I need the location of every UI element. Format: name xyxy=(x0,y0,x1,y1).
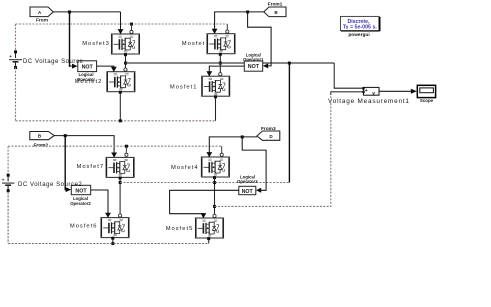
wire DC source + up to bus xyxy=(15,24,17,52)
load rail bottom bridge to Voltage Measurement - input xyxy=(215,95,331,206)
wire Mosfet5 source down to bottom bus xyxy=(208,239,210,243)
wire bus down to Mosfet4 drain circle xyxy=(221,146,223,153)
op-amp NOT U2 Logical Operator1 xyxy=(243,53,264,72)
transistor Mosfet5 xyxy=(166,213,224,240)
arrowhead into Scope xyxy=(411,89,417,94)
svg-text:Mosfet3: Mosfet3 xyxy=(82,41,110,47)
DC voltage source V2 xyxy=(2,174,15,193)
goto tag From3 (D) xyxy=(257,126,280,140)
arrowhead into Logical Operator2 input xyxy=(66,187,72,192)
transistor Mosfet (top right) xyxy=(182,29,235,56)
svg-text:Ts = 5e-005 s.: Ts = 5e-005 s. xyxy=(343,25,378,31)
svg-text:NOT: NOT xyxy=(75,189,87,195)
node junction to series rail xyxy=(288,62,291,65)
wire Mosfet3 source down to mid bus xyxy=(125,56,127,64)
op-amp NOT U4 Logical Operator3 xyxy=(237,174,258,195)
svg-text:+: + xyxy=(2,177,5,182)
wire Mosfet2 source down to bottom bus xyxy=(119,93,121,121)
voltmeter U5 Voltage Measurement1 xyxy=(328,87,410,105)
svg-text:Mosfet: Mosfet xyxy=(182,41,205,47)
top positive bus (gray) xyxy=(16,23,228,25)
wire From tag to Mosfet3 gate (horizontal) xyxy=(53,11,120,13)
svg-text:NOT: NOT xyxy=(242,189,254,195)
wire down to Mosfet3 gate xyxy=(120,12,122,30)
wire junction down to Logical Operator2 input xyxy=(65,136,66,190)
arrowhead into Logical Operator3 right input xyxy=(256,188,261,193)
wire Voltage Measurement output to Scope xyxy=(379,90,411,92)
transistor Mosfet7 xyxy=(76,152,134,179)
node junction bottom bus (bottom bridge) xyxy=(111,242,114,245)
wire From3 to Mosfet4 gate xyxy=(209,137,257,153)
wire Mosfet source down through mid bus to Mosfet1 drain xyxy=(219,55,221,73)
op-amp NOT U1 Logical Operator xyxy=(77,61,97,82)
node junction on From2 wire xyxy=(64,134,67,137)
wire Mosfet6 source down to bottom bus xyxy=(112,239,114,244)
wire NOT output to Mosfet2 gate xyxy=(97,66,114,67)
scope block Scope xyxy=(417,85,435,103)
svg-text:+: + xyxy=(9,54,12,59)
svg-text:Mosfet7: Mosfet7 xyxy=(76,164,104,170)
node junction bottom bus xyxy=(119,119,122,122)
goto tag From1 (B) xyxy=(264,2,286,17)
svg-text:NOT: NOT xyxy=(82,64,94,70)
op-amp NOT U3 Logical Operator2 xyxy=(70,185,91,206)
wire bus down to Mosfet3 drain circle xyxy=(131,24,133,30)
svg-text:+: + xyxy=(365,88,368,94)
wire Mosfet1 source down to bottom bus xyxy=(215,98,217,121)
node junction mid bus right (bottom bridge) xyxy=(213,181,216,184)
DC voltage source V1 xyxy=(9,50,22,69)
svg-text:Mosfet2: Mosfet2 xyxy=(75,79,103,85)
wire bus down to Mosfet drain circle xyxy=(226,24,228,30)
node junction mid bus right xyxy=(219,62,222,65)
goto tag From2 (A) xyxy=(30,132,54,149)
node junction bus to Mosfet3 drain xyxy=(130,23,133,26)
svg-text:From3: From3 xyxy=(261,126,276,132)
wire Mosfet7 source down through mid bus to Mosfet6 drain xyxy=(119,179,121,214)
node junction mid bus left (bottom bridge) xyxy=(119,181,122,184)
mid bus node B (bottom bridge output) xyxy=(120,182,289,184)
node junction mid bus left xyxy=(124,62,127,65)
svg-text:Mosfet4: Mosfet4 xyxy=(171,165,199,171)
svg-text:DC Voltage Source: DC Voltage Source xyxy=(23,59,83,65)
wire Logical Operator1 output to Mosfet1 gate xyxy=(209,66,244,71)
wire Mosfet4 source down through mid bus to Mosfet5 drain xyxy=(214,178,216,214)
svg-text:Mosfet6: Mosfet6 xyxy=(70,223,98,229)
wire junction drop to NOT Logical Operator xyxy=(70,12,72,66)
bottom bus of top bridge xyxy=(16,67,216,120)
series rail top bridge to bottom bridge xyxy=(288,63,290,183)
wire bus down to Mosfet7 drain circle xyxy=(125,146,127,153)
wire DC source2 + up to bus xyxy=(7,146,9,174)
svg-text:Mosfet1: Mosfet1 xyxy=(170,85,198,91)
transistor Mosfet6 xyxy=(70,213,129,240)
svg-text:Mosfet5: Mosfet5 xyxy=(166,226,194,232)
wire jog From1 junction to Logical Operator1 input xyxy=(248,12,272,66)
svg-text:NOT: NOT xyxy=(248,64,260,70)
wire mid bus to Voltage Measurement + input xyxy=(334,63,363,88)
wire jog From3 junction to Logical Operator3 input xyxy=(242,137,266,190)
wire Logical Operator2 output to Mosfet6 gate xyxy=(91,190,108,213)
svg-text:From1: From1 xyxy=(268,2,283,8)
wire From1 to Mosfet gate xyxy=(215,12,264,29)
svg-text:From: From xyxy=(36,17,48,23)
node junction on From wire xyxy=(68,10,71,13)
node junction bus to Mosfet7 drain xyxy=(125,145,128,148)
mid bus node A (top bridge output) xyxy=(126,62,335,64)
bottom bus of bottom bridge xyxy=(8,192,209,244)
transistor Mosfet2 xyxy=(75,67,135,94)
node junction to load rail xyxy=(213,205,216,208)
arrowhead into Logical Operator input xyxy=(72,64,78,69)
svg-text:Scope: Scope xyxy=(420,98,434,103)
transistor Mosfet3 xyxy=(82,29,139,56)
top bus of bottom bridge (gray) xyxy=(8,145,222,147)
svg-text:Operator3: Operator3 xyxy=(237,179,258,184)
svg-text:Operator1: Operator1 xyxy=(243,57,264,62)
svg-text:powergui: powergui xyxy=(348,32,369,38)
transistor Mosfet4 xyxy=(171,152,229,179)
block powergui xyxy=(340,16,379,38)
svg-text:DC Voltage Source2: DC Voltage Source2 xyxy=(18,182,82,188)
wire junction down to Mosfet2 drain circle xyxy=(125,63,127,68)
transistor Mosfet1 xyxy=(170,71,230,98)
node junction on From1 wire xyxy=(246,10,249,13)
goto tag From (A) xyxy=(30,7,53,23)
wire From2 to Mosfet7 gate xyxy=(54,136,114,153)
node junction on From3 wire xyxy=(241,135,244,138)
svg-text:Voltage Measurement1: Voltage Measurement1 xyxy=(328,98,410,105)
svg-text:From2: From2 xyxy=(33,143,48,149)
svg-text:Operator2: Operator2 xyxy=(70,201,91,206)
wire Logical Operator3 output to Mosfet5 gate xyxy=(170,190,239,214)
arrowhead into Logical Operator1 right input xyxy=(263,63,268,68)
